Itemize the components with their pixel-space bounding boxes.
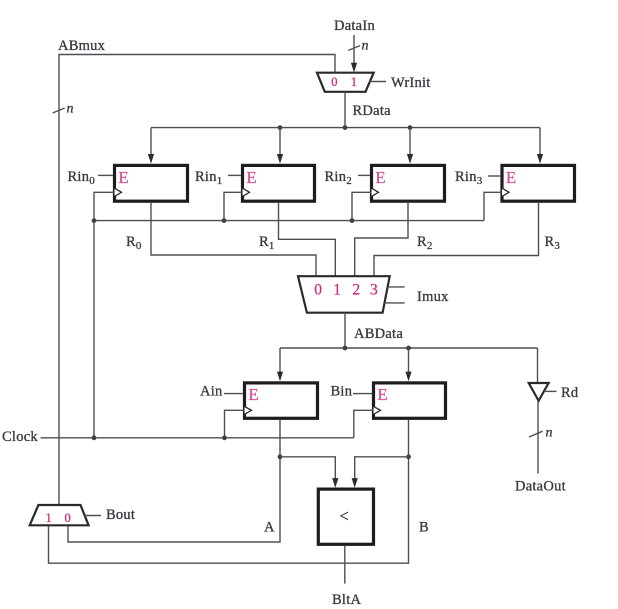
wire Rin0 stub <box>98 174 113 176</box>
register R2 <box>372 165 445 201</box>
wire RData drop to R0 <box>150 128 152 155</box>
arrowhead into WrInit mux <box>351 63 357 73</box>
wire clock to A <box>225 410 245 438</box>
svg-text:1: 1 <box>351 75 357 89</box>
wire R2 output to Imux input 2 <box>355 203 408 276</box>
mux Imux <box>298 276 390 313</box>
svg-text:B: B <box>419 520 429 536</box>
wire ABData bus <box>280 347 538 349</box>
wire Bin stub <box>353 393 373 395</box>
register R3 <box>502 165 575 201</box>
wire RData drop to R2 <box>409 128 411 155</box>
wire Ain stub <box>224 393 244 395</box>
register B <box>374 383 446 418</box>
mux WrInit <box>317 73 374 92</box>
svg-text:Bout: Bout <box>106 507 135 523</box>
svg-text:n: n <box>67 102 74 117</box>
wire clock R1 <box>224 192 242 220</box>
svg-text:ABData: ABData <box>354 326 403 342</box>
svg-text:A: A <box>264 520 275 536</box>
junction Clock/register rail <box>92 435 97 440</box>
junction clock rail R2 <box>350 218 355 223</box>
wire ABData drop to A <box>279 348 281 373</box>
junction RData output <box>343 125 348 130</box>
junction clock rail R1 <box>222 218 227 223</box>
junction clock rail at R0 drop <box>92 218 97 223</box>
wire Rin3 stub <box>488 175 501 177</box>
wire R1 output to Imux input 1 <box>279 203 336 276</box>
register A <box>245 383 318 418</box>
bus-width slash on DataIn wire <box>348 46 360 51</box>
svg-text:Clock: Clock <box>2 429 38 445</box>
clock input triangle R3 <box>502 188 509 196</box>
svg-text:Ain: Ain <box>200 384 223 400</box>
svg-text:DataIn: DataIn <box>334 18 375 34</box>
svg-text:E: E <box>249 385 259 404</box>
junction B output / comparator arm <box>406 454 411 459</box>
svg-text:0: 0 <box>314 282 322 299</box>
wire ABData from Imux output <box>344 313 346 348</box>
svg-text:1: 1 <box>333 282 341 299</box>
svg-text:2: 2 <box>352 282 360 299</box>
junction RData/R2 <box>408 125 413 130</box>
clock input triangle B <box>374 406 381 414</box>
svg-text:Rd: Rd <box>561 385 579 401</box>
svg-text:1: 1 <box>46 511 52 525</box>
clock input triangle R1 <box>243 188 250 196</box>
wire R0 output to Imux input 0 <box>151 203 316 276</box>
svg-text:0: 0 <box>331 75 337 89</box>
wire register clock rail <box>94 220 484 222</box>
wire clock to B <box>354 410 373 438</box>
junction ABData/B drop <box>406 346 411 351</box>
wire Rin2 stub <box>358 174 370 176</box>
wire clock R0 and long drop to Clock rail <box>94 192 114 437</box>
wire DataIn into WrInit mux input 1 <box>353 35 355 65</box>
wire WrInit select stub <box>370 81 387 83</box>
svg-text:n: n <box>362 39 369 54</box>
svg-text:n: n <box>546 426 553 441</box>
svg-text:E: E <box>247 168 257 187</box>
svg-text:RData: RData <box>353 103 392 119</box>
wire RData from WrInit mux output <box>344 92 346 128</box>
svg-text:0: 0 <box>65 511 71 525</box>
register R1 <box>243 165 315 201</box>
wire RData drop to R3 <box>539 128 541 155</box>
wire ABData drop to B <box>408 348 410 373</box>
wire B to comparator right input <box>355 457 409 480</box>
junction ABData output <box>343 346 348 351</box>
wire RData bus <box>151 127 540 129</box>
tri-state buffer Rd <box>529 383 549 401</box>
wire A output down and back to Bout input 0 <box>68 420 280 543</box>
svg-text:3: 3 <box>370 282 378 299</box>
svg-text:<: < <box>340 507 349 526</box>
junction Clock/A <box>222 435 227 440</box>
wire BltA output <box>344 546 346 584</box>
mux Bout <box>30 505 89 525</box>
wire R3 output to Imux input 3 <box>374 203 539 276</box>
clock input triangle R2 <box>372 188 379 196</box>
bus-width slash on DataOut wire <box>529 431 543 437</box>
wire DataOut from Rd buffer <box>537 401 539 474</box>
svg-text:BltA: BltA <box>332 592 361 608</box>
svg-text:E: E <box>119 168 129 187</box>
svg-text:WrInit: WrInit <box>391 75 431 91</box>
wire A to comparator left input <box>280 457 335 480</box>
svg-text:Bin: Bin <box>331 384 353 400</box>
wire Rd select stub <box>544 390 557 392</box>
wire RData drop to R1 <box>279 128 281 155</box>
svg-text:Imux: Imux <box>417 289 449 305</box>
wire ABData to Rd buffer <box>537 348 539 383</box>
wire Imux select stub upper <box>388 286 405 288</box>
bus-width slash on ABmux wire <box>53 108 65 113</box>
wire Bout select stub <box>85 515 102 517</box>
clock input triangle A <box>245 406 252 414</box>
register R0 <box>115 165 188 201</box>
junction RData/R0R1 <box>278 125 283 130</box>
svg-text:ABmux: ABmux <box>58 38 106 54</box>
comparator <box>318 489 373 544</box>
junction A output / comparator arm <box>278 454 283 459</box>
wire Clock rail <box>41 437 354 439</box>
svg-text:E: E <box>378 385 388 404</box>
wire clock R2 <box>352 192 371 220</box>
svg-text:E: E <box>506 168 516 187</box>
wire B output down and back to Bout input 1 <box>49 420 409 564</box>
wire ABmux feedback loop (Bout output up and over to WrInit input 0) <box>59 55 335 506</box>
clock input triangle R0 <box>115 188 122 196</box>
wire Imux select stub lower <box>385 302 405 304</box>
wire clock R3 <box>484 192 502 220</box>
svg-text:E: E <box>376 168 386 187</box>
svg-text:DataOut: DataOut <box>515 479 566 495</box>
wire Rin1 stub <box>228 174 241 176</box>
